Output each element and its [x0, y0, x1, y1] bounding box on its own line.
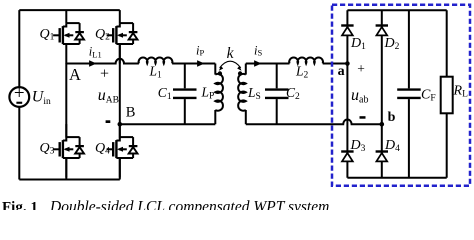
svg-text:D1: D1 — [350, 36, 366, 52]
bottom row B to Lp — [120, 123, 216, 125]
diode D1 — [341, 26, 353, 36]
label uab minus — [360, 116, 366, 119]
D2/D4 branch wire — [381, 10, 383, 178]
svg-text:Q3: Q3 — [40, 141, 55, 157]
svg-text:B: B — [126, 104, 136, 120]
node b junction dot — [380, 122, 385, 127]
rectifier top rail — [347, 9, 446, 11]
dashed rectifier box — [332, 5, 470, 186]
svg-text:+: + — [357, 61, 365, 76]
current arrow iS — [254, 60, 262, 66]
left bridge leg wire — [65, 63, 67, 138]
svg-text:iS: iS — [254, 44, 262, 58]
svg-text:+: + — [100, 66, 109, 83]
left source leg bottom wire — [18, 107, 20, 180]
wire RL branch upper — [446, 10, 448, 77]
svg-text:uAB: uAB — [98, 87, 119, 106]
svg-text:LS: LS — [247, 85, 261, 102]
wire CF branch lower — [408, 99, 410, 178]
wire Q4 source to bottom rail — [119, 158, 121, 180]
secondary polarity dot — [238, 71, 242, 75]
wire: secondary top row — [246, 63, 290, 65]
primary polarity dot — [218, 71, 222, 75]
source minus sign — [16, 102, 22, 104]
svg-text:Double-sided LCL compensated W: Double-sided LCL compensated WPT system — [49, 198, 329, 210]
svg-text:uab: uab — [351, 87, 368, 106]
svg-text:L2: L2 — [295, 63, 309, 80]
diode D4 — [376, 152, 388, 162]
svg-text:Q2: Q2 — [95, 27, 110, 43]
wire: L2 to node a — [323, 63, 348, 65]
svg-text:D3: D3 — [350, 138, 366, 154]
diode D3 — [341, 152, 353, 162]
transistor Q4 — [107, 124, 138, 177]
transistor Q1 — [53, 10, 84, 63]
secondary coil Ls — [245, 64, 247, 75]
label uAB minus — [106, 120, 111, 123]
svg-text:RL: RL — [453, 84, 469, 100]
coupling k arc — [220, 61, 241, 68]
svg-text:L1: L1 — [149, 63, 163, 80]
capacitor CF plates — [397, 88, 421, 90]
svg-text:LP: LP — [201, 85, 215, 102]
left source leg top wire — [18, 10, 20, 87]
svg-text:C1: C1 — [158, 85, 172, 102]
node B junction dot — [118, 122, 123, 127]
svg-text:Q1: Q1 — [40, 27, 55, 43]
svg-text:C2: C2 — [286, 85, 300, 102]
capacitor C1 — [184, 64, 186, 89]
svg-text:iL1: iL1 — [89, 45, 102, 60]
svg-text:iP: iP — [196, 44, 204, 58]
node a junction dot — [345, 61, 350, 66]
diode D2 — [376, 26, 388, 36]
svg-text:A: A — [69, 65, 81, 84]
svg-text:+: + — [14, 83, 25, 104]
current arrow iL1 — [89, 60, 97, 66]
svg-text:a: a — [338, 64, 345, 79]
current arrow iP — [197, 60, 205, 66]
capacitor C2 — [276, 64, 278, 89]
rectifier bottom rail — [347, 177, 446, 179]
svg-text:D2: D2 — [384, 36, 400, 52]
svg-text:CF: CF — [421, 88, 436, 104]
wire RL branch lower — [446, 113, 448, 177]
transistor Q3 — [53, 124, 84, 177]
svg-text:Q4: Q4 — [95, 141, 110, 157]
transistor Q2 — [107, 10, 138, 63]
coupling arrowhead left — [219, 66, 223, 71]
voltage source U_in — [9, 87, 29, 107]
resistor RL body — [441, 77, 453, 114]
svg-text:Fig. 1: Fig. 1 — [2, 199, 38, 210]
inductor L2 — [289, 57, 323, 63]
wire: node A row with hop over right leg — [66, 59, 139, 64]
wire: secondary bottom row with hop over D1 leg — [246, 119, 382, 124]
wire: L1 to transformer primary — [172, 63, 215, 65]
inductor L1 — [139, 57, 173, 63]
top rail — [19, 9, 120, 11]
coupling arrowhead right — [237, 66, 241, 71]
svg-text:D4: D4 — [384, 138, 400, 154]
right bridge leg wire — [119, 44, 121, 139]
svg-text:b: b — [388, 110, 396, 125]
wire CF branch upper — [408, 10, 410, 88]
primary coil Lp — [214, 64, 216, 75]
svg-text:k: k — [227, 45, 235, 62]
D1/D3 branch wire — [346, 10, 348, 178]
svg-text:Uin: Uin — [32, 89, 51, 108]
bottom rail — [19, 179, 120, 181]
wire Q3 source to bottom rail — [65, 158, 67, 180]
